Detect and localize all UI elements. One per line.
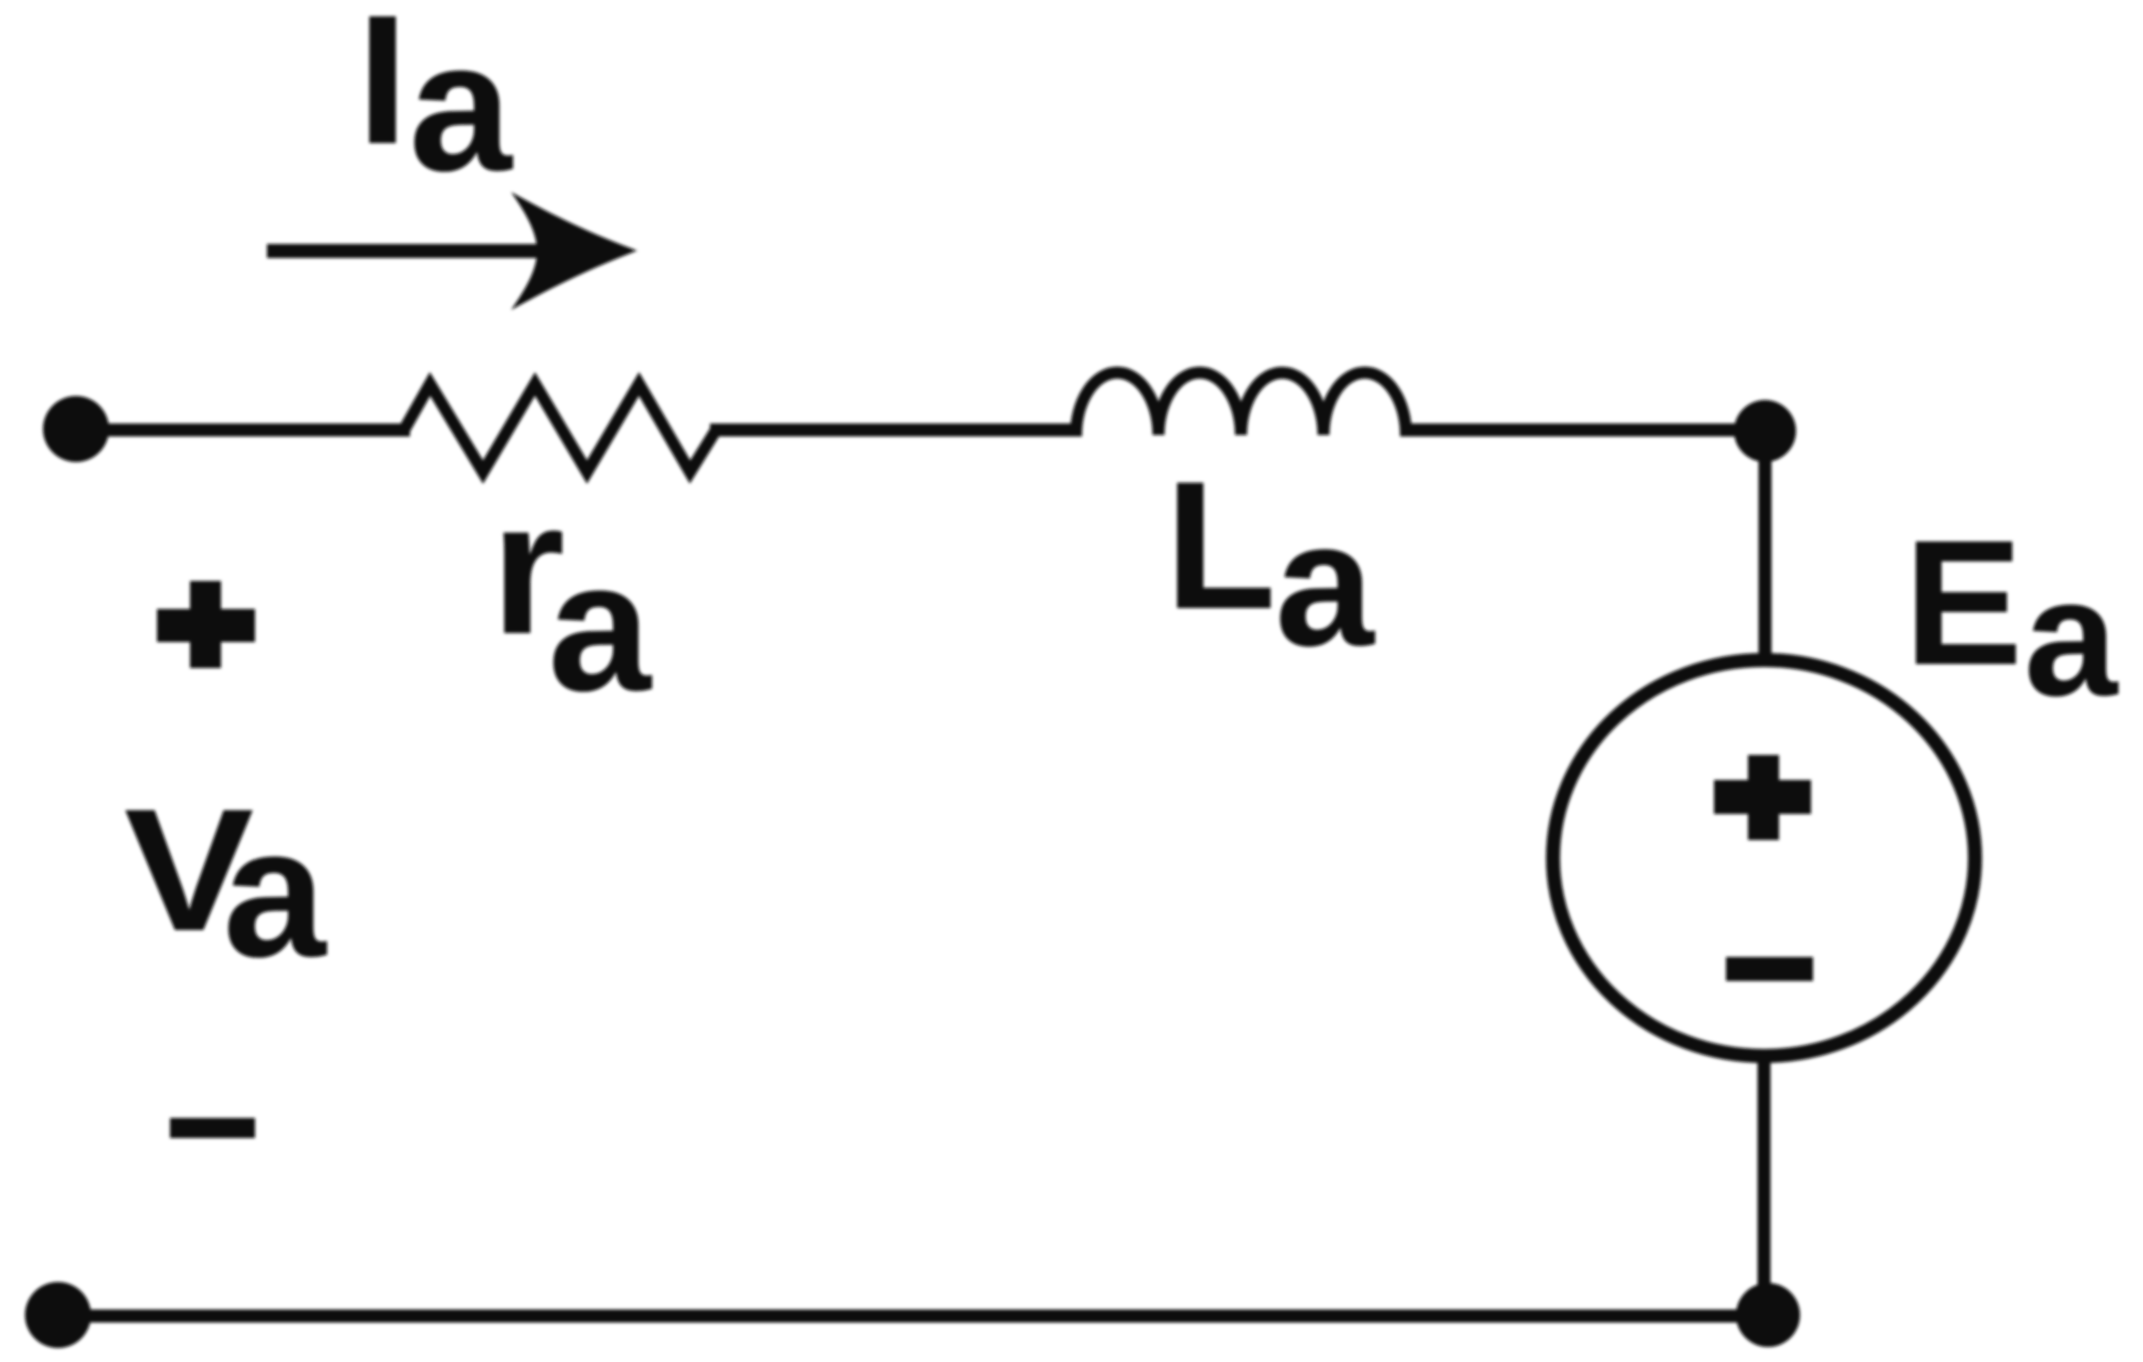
- svg-text:a: a: [1275, 484, 1376, 683]
- wire: top right corner down to source top: [1759, 431, 1772, 662]
- svg-text:E: E: [1904, 503, 2023, 702]
- plus sign inside source: [1714, 755, 1811, 840]
- polarity plus (Va): [157, 581, 255, 668]
- wire: left top terminal to resistor: [76, 424, 410, 437]
- inductor La (4 humps): [1076, 373, 1406, 435]
- node: top right junction: [1734, 400, 1796, 462]
- svg-text:a: a: [548, 524, 653, 730]
- wire: resistor to inductor: [710, 424, 1082, 437]
- voltage source Ea (circle): [1553, 660, 1975, 1056]
- svg-text:I: I: [357, 0, 408, 182]
- svg-text:a: a: [2024, 543, 2119, 731]
- wire: bottom return: [58, 1310, 1768, 1323]
- node: left top terminal: [43, 396, 109, 462]
- svg-text:a: a: [223, 790, 328, 996]
- polarity minus (Va): [170, 1118, 255, 1138]
- wire: source bottom down to bottom right corner: [1758, 1054, 1771, 1316]
- wire: inductor to top right corner: [1400, 424, 1765, 437]
- node: bottom right junction: [1736, 1283, 1800, 1347]
- minus sign inside source: [1726, 957, 1813, 981]
- current arrow Ia head: [511, 192, 638, 310]
- svg-text:L: L: [1165, 443, 1276, 647]
- resistor ra (zigzag): [404, 384, 716, 472]
- node: left bottom terminal: [25, 1282, 91, 1348]
- current arrow Ia shaft: [267, 244, 545, 258]
- svg-text:a: a: [409, 4, 514, 210]
